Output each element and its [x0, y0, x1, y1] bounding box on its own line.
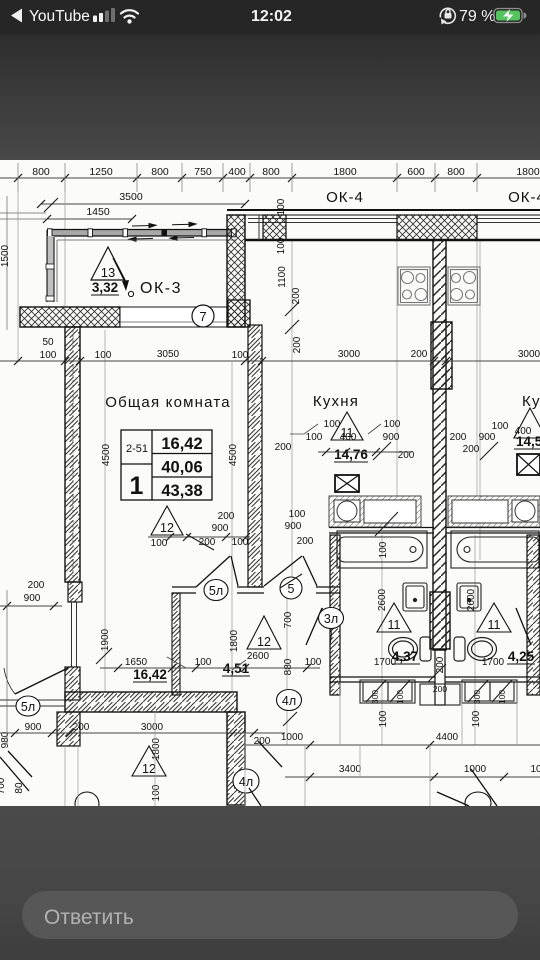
svg-text:Ответить: Ответить	[44, 906, 134, 929]
window glazing lines kitchen1	[248, 215, 397, 240]
bottom dim row 3	[285, 764, 540, 781]
svg-text:3000: 3000	[338, 349, 361, 360]
left wall centre dotted line	[72, 330, 74, 580]
appliance box 2 labels	[472, 690, 507, 704]
svg-text:900: 900	[285, 521, 302, 532]
svg-text:800: 800	[262, 166, 280, 178]
dim row A witness stubs	[18, 163, 477, 192]
svg-text:3500: 3500	[119, 191, 143, 203]
washbasin 2	[457, 583, 481, 611]
central party wall	[433, 240, 446, 650]
svg-text:10: 10	[530, 764, 540, 775]
door mark 4l bottom	[233, 769, 259, 793]
svg-text:5л: 5л	[21, 700, 35, 714]
bathroom1 left wall	[330, 535, 340, 695]
svg-text:200: 200	[297, 536, 314, 547]
svg-text:200: 200	[463, 444, 480, 455]
bottom-left partial circle	[75, 792, 99, 816]
appliance box 1 labels	[370, 690, 405, 704]
svg-text:100: 100	[492, 421, 509, 432]
svg-text:100: 100	[378, 541, 389, 558]
svg-text:12: 12	[257, 635, 271, 649]
wifi icon	[121, 10, 138, 17]
dim row A ticks	[14, 174, 481, 182]
bathtub 1	[337, 531, 427, 568]
svg-text:900: 900	[479, 432, 496, 443]
bath dim values	[374, 657, 505, 668]
bottom-left door diagonals	[0, 751, 32, 791]
bottom dim row 2	[245, 732, 540, 749]
appliance box middle	[420, 684, 460, 705]
svg-text:11: 11	[388, 618, 401, 632]
svg-text:200: 200	[433, 684, 447, 694]
svg-text:200: 200	[291, 287, 302, 304]
door mark 5l ellipse	[204, 580, 228, 601]
svg-text:900: 900	[25, 722, 42, 733]
stove 1	[398, 267, 430, 305]
blurred band above plan	[0, 34, 540, 160]
svg-text:600: 600	[407, 166, 425, 178]
svg-text:100: 100	[276, 237, 287, 254]
svg-text:200: 200	[275, 442, 292, 453]
kitchen1 counter hatch zone	[329, 496, 421, 527]
svg-text:5л: 5л	[209, 584, 223, 598]
triangle 12 hall	[247, 616, 281, 649]
svg-text:100: 100	[151, 538, 168, 549]
wall pier hatched left	[263, 215, 286, 240]
svg-text:3л: 3л	[324, 612, 338, 626]
svg-text:3400: 3400	[339, 764, 362, 775]
washbasin 1	[403, 583, 427, 611]
svg-text:900: 900	[383, 432, 400, 443]
hall dim values	[125, 651, 322, 668]
kitchen1 vent box	[335, 475, 359, 492]
sliding arrows below	[129, 236, 194, 241]
svg-text:12: 12	[160, 521, 174, 535]
area 16,42	[133, 667, 167, 682]
svg-text:100: 100	[95, 350, 112, 361]
window glazing lines kitchen2	[477, 219, 540, 223]
svg-text:2600: 2600	[377, 588, 388, 611]
svg-text:980: 980	[0, 731, 11, 748]
kitchen2 counter	[452, 500, 508, 523]
svg-text:4,25: 4,25	[508, 649, 535, 664]
central wall vent block upper	[431, 322, 452, 389]
svg-text:100: 100	[324, 419, 341, 430]
svg-text:1650: 1650	[125, 657, 148, 668]
svg-text:4500: 4500	[101, 443, 112, 466]
svg-text:16,42: 16,42	[133, 667, 167, 682]
svg-text:1100: 1100	[277, 266, 288, 288]
svg-text:1700: 1700	[482, 657, 505, 668]
kitchen2 counter hatch zone	[448, 496, 540, 527]
svg-text:1800: 1800	[229, 629, 240, 652]
lower witness verticals	[155, 682, 517, 806]
svg-text:100: 100	[232, 350, 249, 361]
svg-text:700: 700	[283, 611, 294, 628]
area 14,5 partial	[514, 434, 540, 449]
left wall balcony-door frame	[72, 602, 77, 667]
svg-text:100: 100	[276, 198, 287, 215]
svg-text:400: 400	[340, 432, 357, 443]
svg-text:11: 11	[488, 618, 501, 632]
svg-text:3000: 3000	[518, 349, 540, 360]
svg-text:ОК-4: ОК-4	[326, 189, 364, 206]
kitchen2 vent box	[517, 454, 540, 475]
area 4,51	[222, 661, 250, 676]
svg-text:750: 750	[194, 166, 212, 178]
left wall lower block	[65, 667, 80, 700]
bottom-right door leaves	[437, 769, 497, 806]
door mark 5 ellipse	[280, 577, 302, 599]
bottom overlay	[0, 806, 540, 960]
area value 3,32	[91, 280, 119, 295]
status bar band	[0, 0, 540, 34]
left wall mid block	[68, 582, 82, 602]
corner pier column	[227, 215, 245, 327]
svg-text:4л: 4л	[239, 775, 253, 789]
door mark 5l balcony	[16, 696, 40, 716]
triangle 11 kitchen	[331, 412, 363, 440]
svg-text:400: 400	[228, 166, 246, 178]
svg-text:12:02: 12:02	[251, 8, 292, 25]
hall dim line	[100, 664, 320, 672]
axis circle 7	[192, 305, 214, 327]
svg-text:800: 800	[447, 166, 465, 178]
svg-text:1000: 1000	[464, 764, 487, 775]
bottom mid door leaf	[249, 741, 282, 806]
svg-text:1700: 1700	[374, 657, 397, 668]
sliding arrows above	[132, 222, 196, 227]
svg-text:1500: 1500	[0, 244, 11, 267]
svg-text:Кухня: Кухня	[522, 393, 540, 410]
svg-text:1450: 1450	[86, 206, 110, 218]
room triangle 13	[91, 247, 125, 280]
svg-text:4л: 4л	[282, 694, 296, 708]
stove 2	[448, 267, 480, 305]
living door dim values	[151, 511, 249, 549]
central wall lower double lines	[435, 649, 445, 705]
svg-text:3050: 3050	[157, 349, 180, 360]
svg-text:1250: 1250	[89, 166, 113, 178]
svg-text:YouTube: YouTube	[29, 8, 90, 25]
area 14,76	[334, 447, 368, 462]
svg-text:2600: 2600	[466, 588, 477, 611]
svg-text:ОК-3: ОК-3	[140, 280, 182, 297]
svg-text:100: 100	[306, 432, 323, 443]
area 4,37	[392, 649, 420, 664]
svg-text:800: 800	[151, 166, 169, 178]
balcony left glazing	[46, 230, 54, 302]
svg-text:40,06: 40,06	[161, 459, 202, 477]
bottom dim row 1	[0, 722, 285, 747]
left exterior wall upper	[65, 327, 80, 582]
svg-text:200: 200	[28, 580, 45, 591]
svg-text:400: 400	[515, 426, 532, 437]
svg-text:700: 700	[0, 777, 7, 794]
bathroom bottom wall lines	[330, 677, 540, 682]
door mark 4l mid	[277, 690, 302, 711]
svg-text:4400: 4400	[436, 732, 459, 743]
kitchen2 dim values partial	[450, 421, 532, 455]
living room bottom wall	[65, 692, 237, 712]
leader arrow of 3,32	[113, 258, 134, 297]
svg-text:800: 800	[32, 166, 50, 178]
svg-text:50: 50	[42, 337, 54, 348]
hall top wall segment c	[316, 587, 340, 593]
svg-text:900: 900	[212, 523, 229, 534]
assorted crossing slashes	[44, 198, 498, 726]
balcony glazing top band	[47, 230, 237, 237]
top exterior wall outer face	[227, 210, 540, 215]
svg-text:ОК-4: ОК-4	[508, 189, 540, 206]
dim 1450	[43, 206, 136, 223]
lower-left slab lines	[0, 700, 65, 706]
triangle 12 living	[151, 506, 183, 535]
living-kitchen partition	[248, 325, 262, 587]
wall pier hatched middle	[397, 215, 477, 240]
kitchen1 sink box	[334, 500, 360, 522]
svg-text:2-51: 2-51	[126, 443, 148, 455]
battery icon	[494, 9, 522, 23]
bathroom2 right wall	[527, 535, 540, 695]
balcony inner face lines	[57, 240, 236, 302]
svg-text:Кухня: Кухня	[313, 393, 359, 410]
kitchen leader lines	[167, 424, 381, 670]
mid dim line across	[0, 360, 540, 362]
door leaf bath2	[516, 608, 531, 645]
svg-text:200: 200	[450, 432, 467, 443]
vertical dim texts left column	[0, 198, 482, 801]
svg-text:100: 100	[378, 710, 389, 727]
glazing mid black post	[162, 230, 168, 237]
svg-text:5: 5	[288, 582, 295, 596]
door mark 3l	[319, 608, 344, 629]
svg-text:100: 100	[384, 419, 401, 430]
svg-text:100: 100	[232, 537, 249, 548]
door leaf 5	[264, 556, 317, 586]
svg-text:Общая комната: Общая комната	[105, 394, 231, 411]
bottom-right partial ellipse	[465, 792, 491, 814]
bathtub 2	[451, 531, 539, 568]
svg-text:4,51: 4,51	[223, 661, 250, 676]
toilet 2	[454, 637, 497, 661]
toilet 1	[389, 637, 432, 661]
svg-text:200: 200	[435, 656, 446, 673]
cellular bars	[93, 8, 115, 22]
vertical witness lines grid	[18, 192, 480, 745]
kitchen window dim values	[275, 419, 415, 461]
hall top wall segment a	[172, 587, 196, 593]
appliance box 1	[360, 680, 415, 703]
svg-text:1800: 1800	[151, 737, 162, 760]
triangle kitchen2 partial	[514, 408, 540, 438]
svg-text:2600: 2600	[247, 651, 270, 662]
svg-text:1800: 1800	[333, 166, 357, 178]
kitchen1 counter	[364, 500, 416, 523]
left wall lower stub	[57, 712, 80, 746]
hall partition vertical	[172, 593, 180, 695]
appliance slashes	[366, 680, 512, 702]
triangle 12 bottom	[132, 746, 166, 776]
svg-text:100: 100	[471, 710, 482, 727]
balcony parapet hatched left	[20, 307, 120, 327]
svg-text:7: 7	[199, 309, 206, 324]
area 4,25	[507, 649, 535, 664]
svg-text:1900: 1900	[100, 628, 111, 651]
balcony door leaf left	[4, 668, 68, 694]
door leaf 5l	[196, 556, 238, 587]
triangle 11 bath1	[377, 603, 411, 632]
svg-text:3000: 3000	[141, 722, 164, 733]
svg-text:3,32: 3,32	[92, 280, 118, 295]
svg-text:4500: 4500	[228, 443, 239, 466]
svg-text:100: 100	[289, 509, 306, 520]
svg-text:100: 100	[151, 784, 162, 801]
svg-text:900: 900	[24, 593, 41, 604]
corner hatched block	[228, 300, 250, 327]
dim 3500	[37, 191, 249, 208]
balcony parapet white part	[120, 307, 228, 327]
kitchen2 sink box	[512, 500, 538, 522]
kitchen door dim values	[285, 509, 314, 547]
svg-text:100: 100	[40, 350, 57, 361]
triangle 11 bath2	[477, 603, 511, 632]
left margin axis lines	[0, 196, 46, 330]
svg-text:79 %: 79 %	[459, 8, 495, 25]
dim row A values	[32, 166, 540, 178]
hall top wall segment b	[237, 587, 264, 593]
left lower witness vertical	[6, 590, 8, 745]
dim row A line	[0, 177, 540, 179]
glazing posts	[48, 229, 237, 237]
mid dim values	[40, 337, 540, 361]
rotation lock icon	[440, 8, 455, 24]
central wall vent block lower	[430, 592, 450, 649]
svg-text:200: 200	[292, 336, 303, 353]
svg-text:200: 200	[411, 349, 428, 360]
svg-text:16,42: 16,42	[161, 435, 202, 453]
door leaf 3l	[306, 608, 331, 645]
stamp texts	[126, 435, 203, 500]
apartment stamp table	[121, 430, 212, 500]
svg-text:200: 200	[218, 511, 235, 522]
bathroom top wall lines	[329, 528, 540, 534]
left window dim	[24, 580, 45, 604]
living door dim line	[148, 533, 250, 541]
kitchen dim line	[318, 448, 412, 456]
mid dim ticks	[14, 357, 450, 365]
svg-text:100: 100	[305, 657, 322, 668]
svg-text:13: 13	[101, 265, 115, 280]
reply input pill	[22, 891, 518, 939]
back chevron	[11, 9, 22, 23]
top exterior wall inner face	[245, 239, 540, 241]
svg-text:880: 880	[283, 658, 294, 675]
white drawing sheet	[0, 160, 540, 806]
appliance box 2	[462, 680, 517, 703]
lower vertical wall	[227, 712, 245, 805]
svg-text:200: 200	[73, 722, 90, 733]
svg-text:14,76: 14,76	[334, 447, 368, 462]
svg-text:1000: 1000	[281, 732, 304, 743]
svg-text:1: 1	[130, 472, 144, 500]
left window dim line	[0, 602, 62, 610]
svg-text:1800: 1800	[516, 166, 540, 178]
svg-text:12: 12	[142, 762, 156, 776]
svg-text:43,38: 43,38	[161, 482, 202, 500]
